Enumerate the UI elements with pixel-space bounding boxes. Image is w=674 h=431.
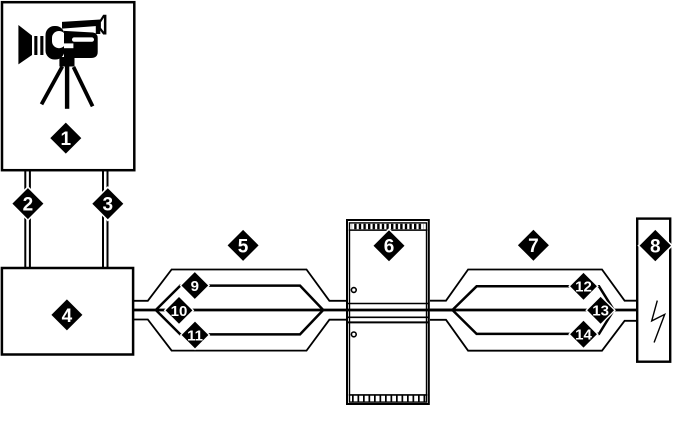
svg-text:9: 9 [191,278,199,295]
svg-text:12: 12 [575,279,592,296]
svg-text:13: 13 [592,303,609,320]
svg-text:6: 6 [384,237,395,258]
svg-text:7: 7 [528,236,539,257]
svg-text:1: 1 [61,129,72,150]
svg-text:2: 2 [23,195,34,216]
svg-text:3: 3 [103,195,114,216]
svg-text:5: 5 [238,236,249,257]
svg-text:4: 4 [62,306,73,327]
svg-text:10: 10 [171,303,188,320]
svg-text:14: 14 [575,327,592,344]
svg-text:8: 8 [650,237,661,258]
svg-text:11: 11 [187,327,203,344]
